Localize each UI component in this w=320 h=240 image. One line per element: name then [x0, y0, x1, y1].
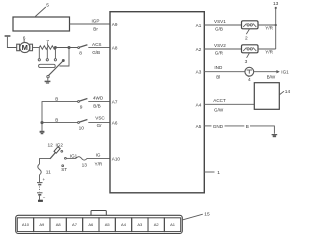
svg-text:B: B	[55, 118, 58, 123]
svg-text:Y/R: Y/R	[265, 26, 273, 31]
svg-text:G/B: G/B	[215, 27, 223, 32]
svg-text:Y/R: Y/R	[265, 50, 273, 55]
svg-text:7: 7	[46, 39, 49, 45]
svg-text:A10: A10	[22, 222, 30, 227]
svg-text:IG2: IG2	[56, 143, 64, 148]
svg-text:A8: A8	[56, 222, 62, 227]
svg-text:13: 13	[273, 1, 279, 7]
svg-text:9: 9	[80, 104, 83, 110]
svg-text:5: 5	[46, 3, 49, 9]
svg-text:B/W: B/W	[267, 74, 276, 79]
svg-text:12: 12	[48, 143, 54, 149]
svg-text:G/R: G/R	[215, 51, 224, 56]
svg-text:A1: A1	[196, 23, 202, 28]
svg-text:1: 1	[217, 170, 220, 176]
svg-text:A4: A4	[121, 222, 127, 227]
svg-text:B: B	[55, 97, 58, 102]
svg-text:ST: ST	[61, 167, 67, 172]
svg-text:IG1: IG1	[70, 153, 78, 158]
svg-text:A2: A2	[154, 222, 160, 227]
svg-text:A4: A4	[196, 102, 202, 107]
svg-text:6: 6	[23, 36, 26, 42]
svg-text:A6: A6	[88, 222, 94, 227]
svg-text:4WD: 4WD	[93, 96, 104, 101]
svg-text:B: B	[246, 124, 249, 129]
svg-text:M: M	[22, 43, 28, 52]
svg-text:A6: A6	[112, 121, 118, 126]
svg-text:VSC: VSC	[95, 115, 105, 120]
svg-text:14: 14	[285, 89, 291, 95]
svg-text:A1: A1	[170, 222, 176, 227]
svg-text:Y/R: Y/R	[95, 162, 103, 167]
svg-text:A9: A9	[112, 22, 118, 27]
svg-text:+: +	[43, 177, 46, 182]
svg-text:GND: GND	[213, 124, 224, 129]
svg-text:A5: A5	[105, 222, 111, 227]
svg-text:IG: IG	[96, 153, 101, 158]
svg-text:VSV2: VSV2	[214, 43, 226, 48]
svg-text:11: 11	[46, 170, 51, 176]
svg-text:8: 8	[79, 50, 82, 56]
svg-text:−: −	[43, 194, 46, 199]
svg-text:G/B: G/B	[92, 50, 100, 55]
svg-text:3: 3	[245, 59, 248, 65]
svg-text:Gr: Gr	[97, 123, 103, 128]
svg-text:Br: Br	[93, 26, 98, 31]
svg-text:IG1: IG1	[281, 69, 289, 74]
svg-text:A7: A7	[112, 100, 118, 105]
svg-text:IND: IND	[214, 65, 223, 70]
svg-text:A8: A8	[112, 46, 118, 51]
svg-text:13: 13	[82, 162, 88, 168]
svg-text:G/W: G/W	[214, 107, 224, 112]
svg-text:A5: A5	[196, 124, 202, 129]
svg-text:4: 4	[248, 77, 251, 83]
svg-text:IGP: IGP	[92, 19, 100, 24]
svg-text:VSV1: VSV1	[214, 19, 226, 24]
svg-text:ACS: ACS	[92, 42, 101, 47]
svg-text:A9: A9	[39, 222, 45, 227]
svg-text:A3: A3	[196, 70, 202, 75]
svg-text:Bl: Bl	[216, 74, 220, 79]
svg-text:A2: A2	[196, 47, 202, 52]
svg-text:A7: A7	[72, 222, 78, 227]
svg-text:ACCT: ACCT	[213, 98, 226, 103]
svg-text:A3: A3	[137, 222, 143, 227]
svg-text:10: 10	[79, 125, 85, 131]
svg-text:2: 2	[245, 35, 248, 41]
svg-text:15: 15	[204, 211, 210, 217]
svg-text:A10: A10	[112, 156, 121, 161]
svg-text:B/B: B/B	[93, 103, 100, 108]
